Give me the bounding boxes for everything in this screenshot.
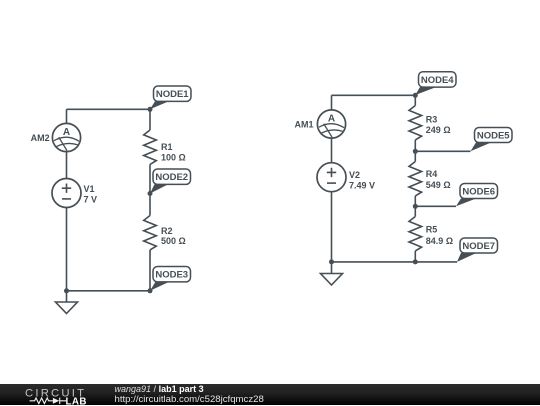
node NODE1 flag: [150, 86, 191, 109]
wire: V1 to bottom rail: [66, 208, 68, 292]
wire: right circuit bottom horizontal: [332, 261, 458, 263]
wire: R4 bottom lead to NODE6 junction: [414, 196, 416, 206]
node NODE5 flag: [471, 128, 513, 152]
junction: NODE6: [413, 204, 418, 209]
resistor R3: [409, 106, 422, 140]
wire: NODE5 stub horizontal: [415, 150, 470, 152]
node NODE4 flag: [415, 72, 456, 95]
wire: NODE6 stub horizontal: [415, 205, 456, 207]
wire: R1 bottom lead to NODE2: [149, 164, 151, 193]
svg-text:R2: R2: [161, 226, 173, 236]
svg-text:NODE4: NODE4: [421, 75, 454, 86]
node NODE7 flag: [457, 238, 498, 262]
node NODE2 flag: [150, 169, 191, 194]
resistor R2: [144, 216, 157, 250]
voltage source V2: [317, 163, 346, 192]
wire: right circuit top horizontal: [332, 94, 416, 96]
svg-text:84.9 Ω: 84.9 Ω: [426, 236, 453, 246]
value label R5 84.9 Ω: [426, 225, 453, 246]
wire: NODE1 to R1 top lead: [149, 109, 151, 130]
value label V1 7 V: [84, 184, 98, 205]
svg-text:A: A: [328, 114, 335, 125]
node NODE6 flag: [456, 184, 498, 207]
svg-text:A: A: [63, 127, 70, 138]
wire: V2 to bottom rail: [331, 192, 333, 262]
voltage source V1: [52, 179, 81, 208]
svg-text:100 Ω: 100 Ω: [161, 152, 186, 162]
ground (right circuit): [321, 262, 343, 285]
svg-text:AM1: AM1: [294, 119, 313, 129]
CircuitLab logo: [24, 384, 104, 406]
svg-text:NODE7: NODE7: [462, 241, 495, 252]
wire: NODE4 to R3 top lead: [414, 95, 416, 105]
svg-text:LAB: LAB: [66, 396, 87, 406]
junction: NODE7 rail tap: [413, 259, 418, 264]
wire: NODE6 junction to R5 top lead: [414, 206, 416, 216]
wire: NODE2 to R2 top lead: [149, 194, 151, 216]
svg-text:R1: R1: [161, 142, 173, 152]
wire: left circuit left vertical (top segment to ammeter): [66, 109, 68, 123]
resistor R4: [409, 162, 422, 196]
ammeter AM2: [52, 123, 80, 151]
wire: left circuit bottom horizontal: [67, 290, 151, 292]
junction: NODE5: [413, 149, 418, 154]
wire: R2 bottom lead to bottom rail: [149, 250, 151, 291]
resistor R5: [409, 217, 422, 251]
junction: NODE3: [148, 288, 153, 293]
wire: R3 bottom lead to NODE5 junction: [414, 140, 416, 151]
node NODE3 flag: [150, 267, 191, 291]
value label R4 549 Ω: [426, 169, 451, 190]
wire: right circuit left vertical to AM1: [331, 95, 333, 110]
svg-text:NODE1: NODE1: [156, 89, 189, 100]
wire: NODE5 junction to R4 top lead: [414, 151, 416, 161]
value label R1 100 Ω: [161, 142, 186, 162]
wire: R5 bottom lead to bottom rail: [414, 251, 416, 262]
svg-text:V2: V2: [349, 170, 360, 180]
svg-text:7 V: 7 V: [84, 195, 98, 205]
wire: left circuit top horizontal: [67, 108, 151, 110]
svg-text:V1: V1: [84, 184, 95, 194]
svg-text:R5: R5: [426, 225, 438, 235]
junction: ground tap right: [329, 259, 334, 264]
ammeter AM1: [317, 110, 345, 138]
ground (left circuit): [56, 291, 78, 314]
svg-text:249 Ω: 249 Ω: [426, 125, 451, 135]
svg-text:NODE2: NODE2: [155, 172, 188, 183]
junction: NODE2: [148, 191, 153, 196]
svg-text:R3: R3: [426, 114, 438, 124]
junction: NODE1: [148, 107, 153, 112]
svg-text:500 Ω: 500 Ω: [161, 236, 186, 246]
value label V2 7.49 V: [349, 170, 375, 191]
svg-text:R4: R4: [426, 169, 438, 179]
svg-text:549 Ω: 549 Ω: [426, 180, 451, 190]
resistor R1: [144, 130, 157, 164]
value label R2 500 Ω: [161, 226, 186, 246]
junction: ground tap left: [64, 288, 69, 293]
wire: between AM2 and V1: [66, 152, 68, 179]
svg-text:AM2: AM2: [31, 133, 50, 143]
wire: between AM1 and V2: [331, 138, 333, 163]
svg-text:NODE3: NODE3: [155, 270, 188, 281]
svg-text:NODE5: NODE5: [477, 131, 510, 142]
value label R3 249 Ω: [426, 114, 451, 135]
junction: NODE4: [413, 93, 418, 98]
svg-text:7.49 V: 7.49 V: [349, 181, 375, 191]
svg-text:NODE6: NODE6: [462, 187, 495, 198]
